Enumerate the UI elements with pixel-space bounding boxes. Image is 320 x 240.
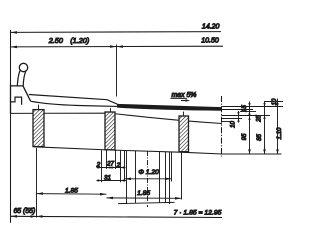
- wire: post3 axis extension down: [181, 153, 183, 200]
- svg-text:31: 31: [104, 174, 111, 181]
- svg-text:1.85: 1.85: [65, 187, 78, 194]
- svg-text:27: 27: [106, 161, 115, 168]
- railing post knob: [19, 63, 27, 71]
- svg-text:10.50: 10.50: [201, 37, 219, 44]
- svg-text:85: 85: [256, 134, 263, 141]
- dimension 15 / 95 line: [249, 102, 251, 155]
- svg-text:65 (55): 65 (55): [13, 208, 35, 215]
- web post 3 (hatched): [179, 116, 189, 152]
- wires: void extension lines: [124, 151, 126, 182]
- dimension 10 (top) / 1.10 line: [277, 99, 279, 155]
- slab underside line: [11, 113, 222, 123]
- dimension 1.85 (first bay): [37, 193, 107, 196]
- axis tick above post 3: [183, 112, 185, 117]
- axis tick above post 2: [110, 108, 112, 113]
- dimension 25 / 85 line: [264, 102, 266, 154]
- deck slab top under sidewalk: [31, 101, 118, 106]
- svg-text:2.50 (1.20): 2.50 (1.20): [48, 36, 90, 45]
- svg-text:10: 10: [230, 121, 237, 128]
- svg-text:15: 15: [241, 105, 248, 112]
- dimension 2/27/2: [97, 167, 126, 169]
- svg-text:10: 10: [271, 98, 278, 105]
- slope arrow: [181, 100, 188, 102]
- svg-text:95: 95: [241, 133, 248, 140]
- void axis (dash-dot): [147, 151, 149, 207]
- soffit line continued as bottom tick: [34, 147, 282, 154]
- axis tick above post 1: [38, 105, 40, 110]
- dimension 10 (small, right): [238, 111, 240, 123]
- svg-text:7 · 1.85 = 12.95: 7 · 1.85 = 12.95: [174, 210, 222, 217]
- web post 1 (hatched): [33, 110, 44, 147]
- web post 2 (hatched): [105, 112, 115, 150]
- svg-text:14.20: 14.20: [202, 24, 220, 31]
- wire: extension line kerb edge: [116, 45, 118, 97]
- dimension 10.50 / 2.50 line: [11, 45, 224, 48]
- dimension 31: [97, 180, 127, 182]
- railing post stem: [17, 70, 26, 86]
- dimension 1.85 (second bay): [107, 197, 182, 199]
- svg-text:Φ 1.20: Φ 1.20: [138, 169, 159, 176]
- svg-text:2: 2: [96, 161, 101, 168]
- node: right level ticks: [264, 101, 283, 103]
- svg-text:1.10: 1.10: [276, 127, 283, 139]
- wires: 2/27/2 extension lines under post 2: [101, 150, 103, 182]
- sidewalk top surface: [29, 95, 118, 105]
- asphalt wedge (solid): [117, 104, 222, 111]
- wire: left extension line: [10, 30, 12, 223]
- kerb notch: [11, 97, 22, 105]
- svg-text:1.85: 1.85: [137, 190, 150, 197]
- svg-text:2: 2: [116, 162, 121, 169]
- kerb block: [11, 86, 31, 101]
- dimension 14.20 top line: [11, 31, 222, 34]
- centerline (dash-dot): [221, 96, 223, 157]
- wire: post1 axis extension down: [36, 148, 38, 218]
- bottom dimension line: [11, 216, 223, 217]
- svg-text:25: 25: [255, 115, 262, 123]
- dimension Φ1.20: [125, 178, 172, 180]
